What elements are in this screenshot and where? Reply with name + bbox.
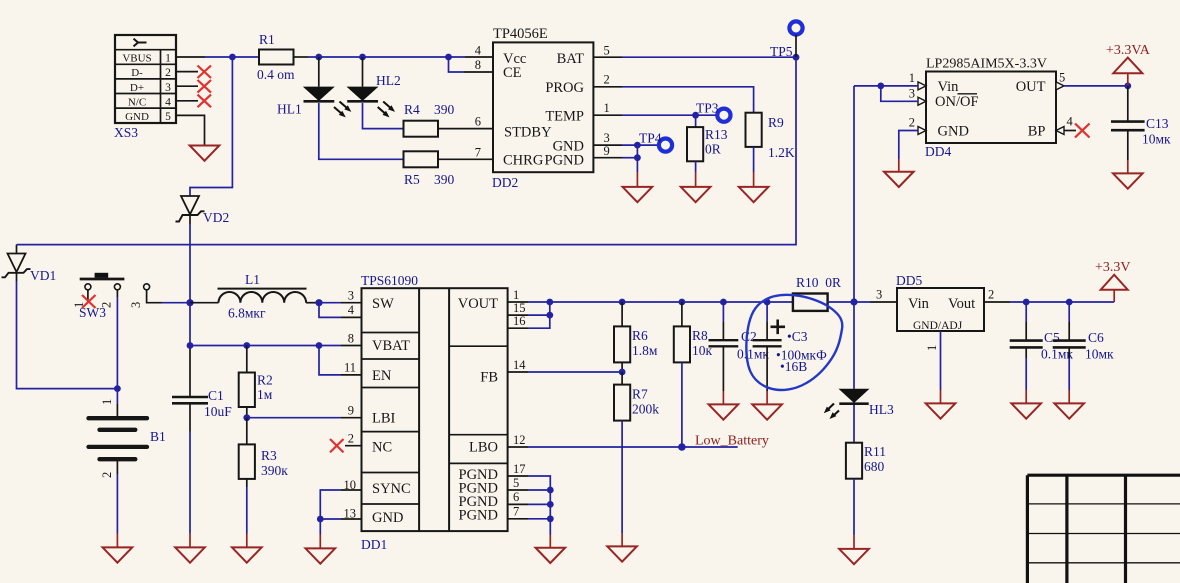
wire R3 to ground (246, 479, 248, 547)
wire to HL3 (853, 302, 855, 389)
svg-text:LP2985AIM5X-3.3V: LP2985AIM5X-3.3V (926, 57, 1047, 72)
ground DD4 (884, 172, 914, 187)
svg-text:1: 1 (100, 399, 114, 405)
svg-text:8: 8 (348, 331, 354, 345)
wire TP5 vertical to left rail (795, 35, 797, 58)
wire R1 to HL nodes (294, 56, 449, 58)
svg-text:R3: R3 (261, 448, 277, 463)
node C2 top (720, 299, 727, 306)
NC pin2 stub (345, 445, 362, 447)
resistor R5 (404, 151, 455, 187)
wire OUT pin5 (1064, 85, 1128, 87)
wire SW3 pin3 to L1 node (147, 290, 190, 303)
svg-text:Vout: Vout (948, 296, 975, 312)
wire SYNC pin10 (320, 490, 361, 519)
resistor R4 (404, 102, 455, 137)
wire XS3 pin1 to node (176, 56, 259, 58)
wire SW3 pin1 stub (87, 290, 89, 302)
wire R7 to ground (621, 421, 623, 546)
svg-text:C5: C5 (1044, 330, 1060, 345)
wire VBUS node to VD2 (190, 57, 232, 196)
svg-text:6: 6 (475, 115, 481, 129)
node SYNC-GND (317, 516, 324, 523)
svg-text:5: 5 (513, 476, 519, 490)
connector XS3 (114, 35, 176, 140)
node L1 input (186, 299, 193, 306)
wire SW pin4 (319, 303, 362, 318)
resistor R2 (239, 346, 273, 408)
svg-text:PGND: PGND (459, 508, 498, 524)
resistor R13 (687, 115, 728, 161)
node PGND pin5 (547, 487, 554, 494)
svg-text:B1: B1 (150, 429, 166, 444)
no-connect X SW3 pin1 (82, 295, 96, 308)
svg-text:NC: NC (372, 440, 392, 456)
svg-text:C6: C6 (1088, 330, 1104, 345)
wire C6 to ground (1068, 347, 1070, 403)
wire DD5 pin1 to ground (940, 331, 942, 403)
wire PGND to ground (549, 535, 551, 547)
diode VD1 (2, 245, 57, 283)
capacitor C2 (709, 302, 770, 362)
wire XS3 pin5 to ground (176, 115, 205, 144)
svg-text:R8: R8 (692, 328, 708, 343)
IC DD2 TP4056E (492, 26, 593, 190)
ground C5 (1011, 403, 1041, 418)
no-connect X pin4 (198, 95, 212, 108)
svg-text:Vin: Vin (908, 296, 930, 312)
title block table (1027, 475, 1180, 583)
wire R13 to ground (695, 161, 697, 186)
resistor R8 (674, 302, 713, 362)
wire C5 to ground (1025, 347, 1027, 403)
wire FB pin14 (508, 371, 622, 373)
wire Vin down to +3.3V rail (853, 86, 855, 302)
svg-text:SYNC: SYNC (372, 481, 411, 497)
svg-text:14: 14 (513, 358, 526, 372)
svg-text:BAT: BAT (557, 51, 585, 67)
svg-text:FB: FB (480, 370, 498, 386)
svg-text:5: 5 (165, 111, 171, 123)
svg-text:+3.3V: +3.3V (1095, 260, 1131, 275)
resistor R11 (846, 405, 886, 479)
wire LBI net (247, 417, 362, 419)
svg-text:6.8мкг: 6.8мкг (228, 306, 266, 321)
svg-text:3: 3 (165, 82, 171, 94)
wire VOUT pin15 (508, 314, 550, 316)
svg-text:VD1: VD1 (30, 268, 56, 283)
svg-text:9: 9 (604, 144, 610, 158)
wire EN branch (319, 346, 362, 375)
svg-text:R9: R9 (768, 115, 784, 130)
resistor R3 (239, 418, 289, 479)
node TP5 (793, 54, 800, 61)
node PGND pin6 (547, 501, 554, 508)
wire CE pin8 (449, 57, 465, 72)
svg-text:LBI: LBI (372, 411, 396, 427)
svg-text:R7: R7 (632, 387, 648, 402)
node R8 LBO (678, 443, 686, 451)
wire Vcc pin4 (449, 56, 466, 58)
wire Vin feed (854, 85, 918, 87)
ground R3 (232, 547, 262, 562)
svg-text:PGND: PGND (545, 153, 584, 169)
wire BAT pin5 to TP5 (593, 56, 796, 58)
wire R4 to pin6 (438, 128, 493, 130)
svg-text:LBO: LBO (469, 440, 498, 456)
capacitor C13 (1111, 86, 1171, 147)
node VBAT branch (187, 342, 194, 349)
svg-text:390: 390 (434, 102, 455, 117)
LED HL2 (347, 57, 401, 117)
svg-text:4: 4 (348, 303, 355, 317)
svg-text:4: 4 (1067, 115, 1074, 129)
wire R2 to LBI node (246, 407, 248, 418)
wire XS3 pin4 stub (176, 100, 198, 102)
svg-text:BP: BP (1028, 124, 1046, 140)
svg-text:R5: R5 (404, 172, 420, 187)
svg-text:7: 7 (475, 145, 481, 159)
wire PROG pin2 to R9 (593, 87, 753, 113)
svg-text:390: 390 (434, 172, 455, 187)
wire R9 to ground (753, 147, 755, 187)
capacitor C3 (753, 302, 827, 374)
svg-text:XS3: XS3 (114, 125, 138, 140)
wire PGND pin17 (508, 476, 551, 535)
svg-text:10мк: 10мк (1085, 347, 1114, 362)
svg-text:200k: 200k (632, 402, 659, 417)
wire C3 to ground (766, 346, 768, 404)
power +3.3VA (1106, 43, 1151, 86)
svg-text:Vin: Vin (938, 79, 960, 95)
svg-text:R2: R2 (257, 373, 273, 388)
IC DD5 (896, 273, 984, 332)
node R6 top (619, 299, 626, 306)
inductor L1 (190, 272, 319, 321)
svg-text:•C3: •C3 (787, 329, 808, 344)
wire LBO pin12 (508, 446, 738, 448)
node PGND junction (634, 154, 641, 161)
wire HL1 cathode to R5 (319, 103, 404, 159)
svg-text:ON/OF: ON/OF (935, 94, 979, 110)
node C3 top (764, 299, 771, 306)
node R13 top (692, 112, 699, 119)
svg-text:EN: EN (372, 368, 392, 384)
node HL1 anode (315, 54, 322, 61)
svg-text:16: 16 (513, 314, 526, 328)
resistor R7 (614, 372, 659, 421)
wire VOUT pin16 (508, 302, 550, 328)
svg-text:TP5: TP5 (770, 44, 793, 59)
wire PGND pin5 (508, 489, 551, 491)
svg-text:VOUT: VOUT (458, 296, 498, 312)
svg-text:2: 2 (604, 73, 610, 87)
wire GND pin3 to TP4 (593, 144, 658, 146)
node Vcc branch (445, 54, 452, 61)
svg-text:R10 0R: R10 0R (796, 275, 841, 290)
node battery top (114, 385, 121, 392)
ground C2 (709, 404, 739, 419)
svg-text:C1: C1 (208, 388, 224, 403)
svg-text:STDBY: STDBY (504, 124, 552, 140)
ground DD5 (926, 403, 956, 418)
wire BP stub (1064, 130, 1076, 132)
LED HL1 (277, 57, 351, 117)
node VBUS junction (229, 54, 236, 61)
wire C1 to ground (189, 403, 191, 547)
svg-text:R6: R6 (632, 328, 648, 343)
svg-text:1м: 1м (257, 387, 273, 402)
svg-text:10uF: 10uF (204, 404, 232, 419)
svg-text:R4: R4 (404, 102, 420, 117)
svg-text:HL3: HL3 (869, 402, 894, 417)
svg-text:9: 9 (348, 404, 354, 418)
node PGND pin7 (547, 515, 554, 522)
highlight loop around C3 (746, 295, 842, 390)
svg-text:4: 4 (475, 44, 482, 58)
svg-text:+3.3VA: +3.3VA (1106, 43, 1151, 58)
test point TP3 (696, 101, 731, 122)
wire to ground DD1 (319, 519, 321, 548)
wire DD5 pin2 to +3.3V (984, 290, 1114, 302)
wire stub to ground DD4 (898, 159, 900, 171)
svg-text:TPS61090: TPS61090 (361, 273, 418, 288)
node R2 top (243, 342, 250, 349)
svg-text:OUT: OUT (1016, 79, 1046, 95)
wire XS3 pin3 stub (176, 85, 198, 87)
svg-text:D-: D- (131, 67, 143, 79)
node C6 top (1066, 299, 1073, 306)
wire VD1 to battery node (17, 281, 118, 389)
ground PGND (536, 548, 566, 563)
ground XS3 (190, 146, 220, 161)
wire PGND pin9 (593, 157, 637, 159)
wire SW pin3 (319, 302, 362, 304)
wire SW3 pin2 down (116, 290, 118, 297)
test point TP5 (770, 21, 803, 59)
wire XS3 pin2 stub (176, 71, 198, 73)
svg-text:GND: GND (372, 510, 403, 526)
svg-text:SW: SW (372, 296, 394, 312)
ground B1 (103, 547, 133, 562)
wire C2 to ground (722, 346, 724, 404)
svg-text:C13: C13 (1146, 116, 1169, 131)
svg-text:R13: R13 (705, 127, 728, 142)
test point TP4 (639, 131, 672, 152)
node HL2 anode (359, 54, 366, 61)
svg-text:0R: 0R (705, 142, 721, 157)
svg-text:1: 1 (925, 345, 939, 351)
svg-text:CHRG: CHRG (503, 153, 544, 169)
ground C1 (175, 547, 205, 562)
svg-text:8: 8 (475, 58, 481, 72)
capacitor C6 (1053, 302, 1114, 362)
svg-text:TEMP: TEMP (545, 109, 584, 125)
svg-text:5: 5 (1059, 71, 1065, 85)
svg-text:10мк: 10мк (1142, 132, 1171, 147)
node R8 top (679, 299, 686, 306)
svg-text:3: 3 (348, 289, 354, 303)
svg-text:GND: GND (125, 111, 149, 123)
svg-text:5: 5 (604, 44, 610, 58)
svg-text:VBUS: VBUS (122, 53, 151, 65)
svg-text:DD4: DD4 (925, 144, 951, 159)
wire TEMP pin1 to TP3 (593, 114, 716, 116)
ground C3 (752, 404, 782, 419)
svg-text:17: 17 (513, 462, 526, 476)
svg-text:2: 2 (909, 116, 915, 130)
wire PGND pin6 (508, 503, 551, 505)
wire VD2 to L1 node (189, 224, 191, 303)
svg-text:Low_Battery: Low_Battery (695, 434, 769, 449)
svg-text:CE: CE (503, 65, 522, 81)
no-connect X pin2 (198, 66, 212, 79)
wire VBAT net (190, 345, 362, 347)
svg-text:11: 11 (344, 361, 356, 375)
svg-text:TP4: TP4 (639, 131, 662, 146)
ground DD2 (623, 187, 653, 202)
svg-text:2: 2 (165, 67, 171, 79)
svg-text:390к: 390к (261, 463, 288, 478)
IC DD4 LP2985AIM5X-3.3V (918, 57, 1064, 160)
ground R7 (607, 546, 637, 561)
wire GND pin13 (320, 518, 361, 520)
wire B1 to ground (116, 461, 118, 547)
node FB (619, 369, 626, 376)
diode VD2 (176, 196, 230, 225)
svg-text:TP4056E: TP4056E (493, 26, 548, 42)
node VOUT pin15 (546, 312, 553, 319)
svg-text:PROG: PROG (545, 80, 584, 96)
svg-text:R1: R1 (259, 32, 275, 47)
ground C6 (1054, 403, 1084, 418)
node Vin branch (877, 83, 884, 90)
wire R6 to FB node (621, 362, 623, 372)
LED HL3 (824, 389, 894, 419)
resistor R10 (793, 275, 841, 311)
wire VOUT pin1 (508, 301, 793, 303)
svg-text:TP3: TP3 (696, 101, 719, 116)
node LBI (243, 414, 250, 421)
ground C13 (1113, 173, 1143, 188)
svg-text:7: 7 (513, 505, 519, 519)
resistor R6 (614, 302, 658, 362)
wire PGND pin7 (508, 518, 551, 520)
svg-text:3: 3 (604, 131, 610, 145)
node EN branch (316, 342, 323, 349)
wire C13 to ground (1127, 130, 1129, 173)
battery B1 (89, 399, 166, 478)
svg-text:1: 1 (604, 101, 610, 115)
node SW pins (315, 299, 322, 306)
ground R11 (839, 549, 869, 564)
svg-text:6: 6 (513, 490, 519, 504)
capacitor C1 (172, 388, 232, 419)
ground DD1 (306, 548, 336, 563)
resistor R9 (746, 113, 795, 160)
svg-text:1.2K: 1.2K (768, 145, 795, 160)
node GND junction (634, 142, 641, 149)
svg-text:D+: D+ (130, 82, 144, 94)
wire GND pin2 (899, 131, 918, 160)
svg-text:1.8м: 1.8м (632, 343, 658, 358)
svg-text:2: 2 (988, 288, 994, 302)
svg-text:DD2: DD2 (492, 175, 518, 190)
wire HL2 cathode to R4 (363, 103, 404, 129)
ground R13 (681, 187, 711, 202)
resistor R1 (257, 32, 295, 82)
wire ON/OF branch (881, 86, 918, 101)
switch SW3 (72, 273, 150, 320)
svg-text:0.1мк: 0.1мк (737, 347, 769, 362)
node OUT junction (1124, 83, 1131, 90)
svg-text:DD5: DD5 (896, 273, 922, 288)
wire GND/PGND to ground (636, 145, 638, 186)
no-connect X pin3 (198, 80, 212, 93)
svg-text:680: 680 (864, 459, 885, 474)
svg-text:VD2: VD2 (203, 210, 229, 225)
svg-text:VBAT: VBAT (372, 338, 410, 354)
svg-text:4: 4 (165, 96, 171, 108)
svg-text:2: 2 (100, 472, 114, 478)
no-connect X NC (330, 439, 344, 452)
svg-text:3: 3 (129, 302, 143, 308)
svg-text:R11: R11 (864, 444, 886, 459)
svg-text:GND: GND (938, 124, 969, 140)
node C5 top (1023, 299, 1030, 306)
svg-text:3: 3 (909, 86, 915, 100)
wire R5 to pin7 (438, 158, 493, 160)
svg-text:HL2: HL2 (376, 73, 401, 88)
wire R8 to LBO (681, 362, 683, 447)
svg-text:3: 3 (876, 288, 882, 302)
node +3.3V junction (850, 298, 857, 305)
no-connect X BP (1075, 124, 1090, 138)
svg-text:DD1: DD1 (361, 537, 387, 552)
wire R10 to DD5 (828, 301, 897, 303)
svg-text:C2: C2 (741, 329, 757, 344)
svg-text:1: 1 (909, 71, 915, 85)
svg-text:1: 1 (165, 53, 171, 65)
svg-text:L1: L1 (245, 272, 260, 287)
wire L1 node down to C1 (189, 303, 191, 346)
svg-text:HL1: HL1 (277, 102, 302, 117)
capacitor C5 (1010, 302, 1074, 362)
svg-text:1: 1 (513, 288, 519, 302)
ground R9 (739, 187, 769, 202)
svg-text:GND/ADJ: GND/ADJ (913, 320, 963, 332)
svg-text:N/C: N/C (128, 96, 146, 108)
svg-text:•16В: •16В (780, 359, 807, 374)
svg-text:15: 15 (513, 301, 526, 315)
svg-text:2: 2 (348, 432, 354, 446)
IC DD1 TPS61090 (361, 273, 508, 552)
wire R11 to ground (853, 479, 855, 549)
svg-text:0.4 om: 0.4 om (257, 67, 295, 82)
power +3.3V (1095, 260, 1131, 290)
node VOUT pin1 (546, 299, 553, 306)
svg-text:12: 12 (513, 433, 526, 447)
